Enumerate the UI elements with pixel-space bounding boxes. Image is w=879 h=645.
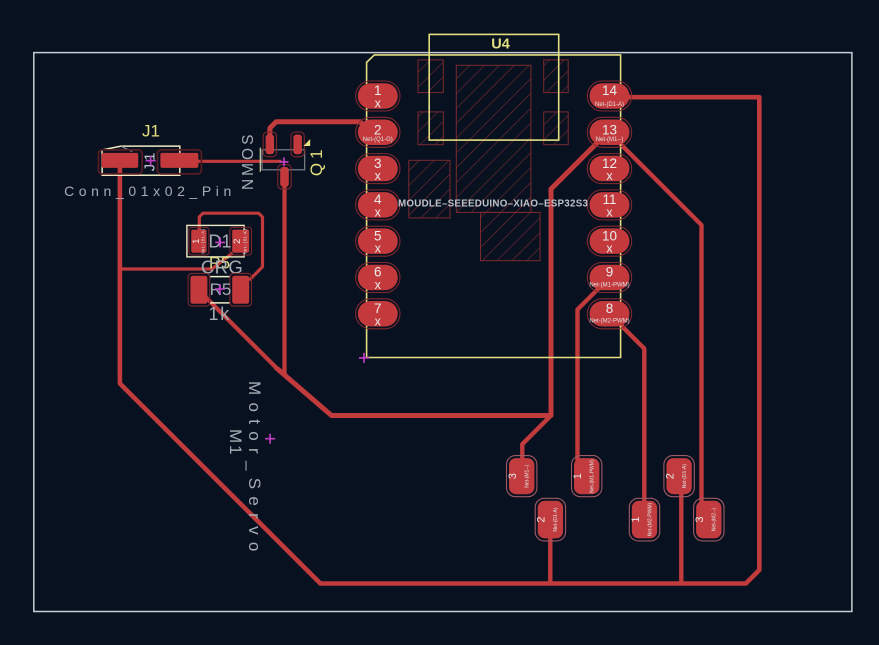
svg-text:2: 2 (374, 122, 382, 137)
svg-text:x: x (375, 278, 382, 292)
svg-text:1: 1 (191, 239, 202, 244)
svg-text:2: 2 (232, 239, 243, 244)
svg-text:9: 9 (606, 265, 614, 280)
svg-text:x: x (375, 169, 382, 183)
svg-text:Conn_01x02_Pin: Conn_01x02_Pin (64, 183, 236, 199)
svg-text:2: 2 (664, 473, 676, 479)
svg-text:x: x (375, 205, 382, 219)
svg-text:MOUDLE–SEEEDUINO–XIAO–ESP32S3: MOUDLE–SEEEDUINO–XIAO–ESP32S3 (398, 199, 588, 210)
svg-text:U4: U4 (491, 37, 510, 53)
svg-text:Net-(D1-A): Net-(D1-A) (682, 464, 688, 489)
svg-text:14: 14 (602, 83, 618, 98)
svg-text:x: x (375, 97, 382, 111)
svg-text:3: 3 (694, 517, 706, 523)
svg-text:Net-(M2-PWM): Net-(M2-PWM) (589, 319, 629, 325)
svg-text:NMOS: NMOS (240, 132, 257, 191)
svg-text:Q1: Q1 (307, 145, 326, 176)
svg-text:8: 8 (606, 301, 614, 316)
svg-text:Net-(M1-PWM): Net-(M1-PWM) (590, 459, 596, 493)
svg-text:13: 13 (602, 122, 617, 137)
svg-text:Net-(D1-K): Net-(D1-K) (244, 229, 249, 254)
svg-text:Net-(Q1-G): Net-(Q1-G) (363, 137, 393, 143)
svg-text:Net-(D1-A): Net-(D1-A) (553, 507, 559, 532)
svg-text:1: 1 (630, 517, 642, 523)
svg-text:Net-(M1--): Net-(M1--) (596, 137, 624, 143)
svg-text:x: x (606, 205, 613, 219)
svg-text:Net-(M1-PWM): Net-(M1-PWM) (589, 282, 629, 288)
svg-text:1: 1 (572, 473, 584, 479)
svg-text:1k: 1k (208, 304, 231, 324)
svg-text:x: x (606, 169, 613, 183)
svg-text:M1: M1 (226, 429, 245, 457)
svg-text:Net-(M1--): Net-(M1--) (525, 464, 531, 487)
svg-text:x: x (375, 314, 382, 328)
svg-text:x: x (606, 242, 613, 256)
svg-text:Net-(D1-A): Net-(D1-A) (202, 229, 207, 254)
svg-text:J1: J1 (142, 122, 160, 141)
svg-text:x: x (375, 242, 382, 256)
svg-text:Motor_Servo: Motor_Servo (245, 381, 264, 559)
svg-text:2: 2 (536, 517, 548, 523)
svg-text:3: 3 (507, 473, 519, 479)
svg-text:CRG: CRG (201, 257, 243, 278)
svg-text:Net-(D1-A): Net-(D1-A) (595, 102, 624, 108)
svg-text:Net-(M2-PWM): Net-(M2-PWM) (647, 502, 653, 536)
svg-text:Net-(M2--): Net-(M2--) (712, 508, 718, 531)
